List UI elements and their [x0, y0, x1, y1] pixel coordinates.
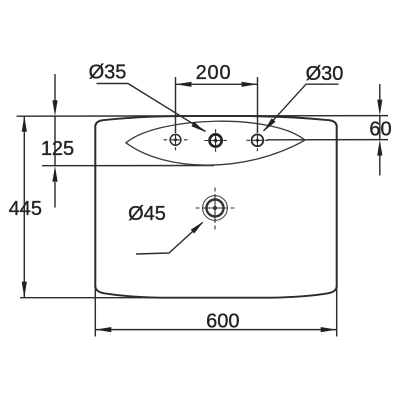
dimension line 200: [176, 83, 258, 85]
svg-text:445: 445: [9, 198, 42, 220]
basin right wall: [336, 125, 338, 288]
arrow 200 left: [176, 82, 192, 87]
svg-text:600: 600: [206, 310, 239, 332]
basin bottom edge: [95, 287, 336, 298]
dimension line 60 upper arrow stem: [379, 84, 381, 101]
dimension line 125 through text: [54, 116, 56, 166]
svg-text:200: 200: [196, 62, 232, 84]
extension line top (rim top tangent): [17, 115, 389, 118]
left faucet hole: [164, 129, 188, 150]
svg-text:125: 125: [41, 138, 74, 160]
extension line 200 right: [257, 77, 259, 133]
basin outer rim: [95, 116, 336, 298]
arrowheads: [22, 82, 383, 333]
arrow 445 bottom: [22, 282, 27, 298]
extension line basin bottom (445 dim): [20, 297, 230, 299]
arrow 60 top (points down): [377, 100, 382, 116]
dimension line 60 lower arrow stem: [379, 153, 381, 176]
svg-text:Ø30: Ø30: [306, 63, 344, 85]
dimension line 125 upper arrow stem: [54, 74, 56, 101]
svg-text:60: 60: [369, 118, 391, 140]
leader O30: [264, 84, 339, 131]
arrow 600 right: [321, 327, 337, 332]
basin top edge: [95, 116, 336, 126]
arrow 125 top (points down to line): [52, 100, 57, 116]
lens shaped deck: [126, 121, 305, 165]
leader O45: [136, 221, 204, 254]
extension line 600 left: [94, 287, 96, 337]
dimension line 60 through text: [379, 116, 381, 140]
svg-text:Ø35: Ø35: [89, 62, 127, 84]
dimension line 445: [23, 116, 25, 298]
arrow 60 bottom (points up): [377, 140, 382, 156]
arrow 200 right: [242, 82, 258, 87]
arrow 445 top: [22, 116, 27, 132]
arrow 600 left: [95, 327, 111, 332]
dimension line 600: [95, 329, 336, 331]
svg-text:Ø45: Ø45: [128, 203, 166, 225]
right faucet hole (O30): [246, 129, 268, 151]
extension line 600 right: [336, 287, 338, 337]
arrow 125 bottom (points up to line): [52, 166, 57, 182]
extension line lens bottom (125 dim): [42, 165, 214, 167]
leader O35: [97, 84, 206, 133]
drain hole (O45): [196, 188, 235, 230]
basin left wall: [94, 125, 96, 288]
extension line hole centerline (60 dim): [267, 139, 388, 141]
extension line 200 left: [175, 77, 177, 133]
dimension line 125 lower arrow stem: [54, 182, 56, 208]
center faucet hole (O35): [204, 129, 226, 151]
